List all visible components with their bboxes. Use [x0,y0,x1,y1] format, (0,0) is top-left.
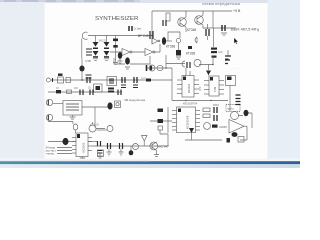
ground [221,33,227,35]
capacitor C15 [118,90,121,96]
wire osc top [88,35,152,37]
IC DD1 [182,76,194,98]
box X4 [238,137,244,143]
svg-text:BC 547: BC 547 [159,145,170,149]
wire row y121 [48,122,73,125]
ground [113,63,118,65]
wire rail drop left [151,11,153,31]
bottom blue bar [0,161,300,164]
capacitor C28 dark [129,150,134,155]
resistor R1 [166,13,170,21]
wire bottom row [92,145,168,147]
capacitor C12 [134,77,137,83]
capacitor C22 [236,95,241,99]
capacitor C10 [87,77,90,83]
ground [118,61,123,63]
svg-text:КФ1015: КФ1015 [187,83,191,93]
diode VD5 [58,77,64,83]
ground [154,155,159,157]
resistor R9 [212,125,218,128]
mouse cursor [234,38,238,44]
transistor VT11 [150,142,158,150]
label BF245 [138,34,149,38]
diode VD7 [189,128,194,133]
capacitor C6 [162,37,166,45]
svg-text:Лм565: Лм565 [219,125,227,129]
svg-text:. . . . . . .: . . . . . . . [229,66,239,70]
buffer U3 [152,38,158,44]
component E1 [158,109,164,113]
varactor VD2 [104,42,110,49]
resistor R3 [86,75,92,78]
wire left of DD3 [167,107,169,133]
wire row y92 [48,91,122,93]
capacitor C13 [80,90,83,96]
capacitor C8 [125,57,130,64]
buffer circle [133,144,139,150]
capacitor C26 [108,143,111,149]
wire drops to ICs [186,68,190,76]
right gray column [268,0,301,160]
resistor cluster [188,46,192,49]
resistor R6 [67,90,72,93]
wire rail drop right [212,11,214,28]
ground [70,115,76,119]
wire under ICs [172,100,228,102]
dashed box K1 [226,105,240,112]
resistor stack R11 [115,36,117,63]
resistor+gnd box [98,150,104,157]
top strip [0,0,300,3]
junction [165,67,166,68]
capacitor C24 [232,132,238,137]
transistor VT8 [231,112,239,120]
below bar strip [0,164,300,168]
connector lug [227,138,231,143]
filter box Z1 [63,101,82,116]
svg-text:100: 100 [218,50,223,54]
resistor R4 [146,79,151,82]
capacitor C29 [98,141,101,147]
varactor VD2b [104,51,110,58]
svg-text:КС1066: КС1066 [82,142,86,152]
crystal ZQ1 [206,29,209,36]
transistor VT5 [107,126,113,132]
transistor VT10 [89,125,96,132]
label +9V [233,9,241,13]
crystal box ZQ2 [94,84,103,92]
svg-text:ЗГ1: ЗГ1 [198,86,202,91]
ground [80,157,85,160]
svg-text:100: 100 [74,87,79,90]
op-amp A2 [229,120,244,134]
svg-text:КТ368: КТ368 [187,28,196,32]
capacitor C9 [79,66,84,72]
svg-text:КВ132: КВ132 [99,40,107,43]
resistor R10 [98,151,103,154]
feedback wire low [130,56,150,64]
junction dots [81,35,214,102]
capacitor C11 [122,77,125,83]
oscillator jack X1 [82,32,87,39]
diode VD6 [206,71,211,76]
jack symbol [182,61,185,67]
wire [155,44,160,52]
page background [0,0,300,168]
wire y68 chain [146,67,172,69]
label VYH 467,5 MHz [231,28,259,32]
svg-text:BF 245: BF 245 [138,34,149,38]
inductor L2 [157,65,163,70]
label above [90,123,99,127]
wire out [82,106,108,108]
wire audio y80 [51,79,172,81]
left gray column [0,2,45,160]
wire [166,40,172,42]
electrolytic C18 [46,114,52,120]
svg-text:4,5В: 4,5В [85,59,91,63]
resistor R8 [203,114,210,118]
varicap VD4 [176,50,181,56]
varactor VD1b [93,51,99,58]
capacitor C21 [214,115,217,121]
svg-text:ТМ2: ТМ2 [213,86,217,92]
connector X2 [47,78,51,82]
capacitor C22b [236,102,241,105]
svg-text:фп1п: фп1п [228,107,235,111]
wire y64.5 [199,56,213,65]
svg-text:КФ1015ПЛ4: КФ1015ПЛ4 [183,102,198,106]
resistor box small [158,126,163,130]
resistor R2 ladder [225,56,231,64]
label KT368 second [186,52,195,56]
connector pin bar [52,78,54,82]
svg-text:К561: К561 [213,103,219,107]
wire loop bottom right [240,126,247,140]
feedback loop wires [168,32,180,41]
resistor R7 [203,108,210,112]
label KT368 [166,45,175,49]
capacitor C14 [90,90,93,96]
ground [125,67,130,69]
input wires [57,148,72,154]
electrolytic C31 [149,65,155,71]
title SYNTHESIZER [95,16,139,22]
wire vertical x95 [94,107,96,128]
junction circle [176,38,180,42]
transistor VT7 [204,123,211,130]
svg-text:КТ368: КТ368 [186,52,195,56]
svg-text:ЧМ модулятора: ЧМ модулятора [124,98,145,102]
transistor VT6 [194,60,201,67]
component E2 [158,119,164,123]
varactor VD1 [93,42,99,49]
capacitor C20 [214,107,217,113]
wire in [53,103,63,105]
svg-text:КТ368: КТ368 [166,45,175,49]
capacitor C32 [108,88,114,93]
bottom white row [0,159,300,162]
electrolytic C25 [63,138,69,145]
IC DA1 [76,133,88,157]
svg-text:схема передатчика: схема передатчика [202,2,240,6]
transistor VT1 [178,18,187,27]
wire jack drop [81,39,83,59]
label between ICs [198,86,202,91]
caps pair small [86,49,92,55]
svg-text:+9 В: +9 В [233,9,241,13]
svg-text:0,1мк: 0,1мк [134,27,142,31]
capacitor C1 [163,20,166,26]
inductor L1 [195,37,197,43]
capacitor C5 [129,26,132,31]
ground [104,59,109,61]
wire y63.5 [165,55,167,68]
wire y121 mid [150,120,172,122]
svg-text:КС1015ХК: КС1015ХК [186,115,190,129]
electrolytic C16 [46,99,52,105]
transistor VT2 [195,16,204,25]
capacitor C27 [120,143,123,149]
JFET VT3 [150,31,153,39]
IC DD2 [209,76,219,96]
box modulator A1 [107,77,117,86]
wire mid vertical [81,58,83,66]
buffer U1 [122,49,130,56]
capacitor oval [73,124,78,130]
svg-text:ВЫХ 467,5 МГц: ВЫХ 467,5 МГц [231,28,259,32]
capacitor C2 [222,25,225,31]
capacitor C17 [107,102,112,109]
ground [213,28,215,47]
capacitor C19 [187,62,190,68]
wire supply rail [152,10,232,12]
svg-text:+питан.: +питан. [46,153,55,156]
capacitor C23 [244,110,249,116]
ground [93,59,98,61]
connector X3 [115,101,121,108]
IC DD3 [177,107,196,133]
label values [99,40,107,43]
diode VD8 [142,136,148,142]
buffer U2 [145,49,153,56]
label KT368 [187,28,196,32]
wire vertical x172 [171,68,173,101]
resistor R5 [56,90,61,93]
box B1 [226,76,236,86]
svg-text:SYNTHESIZER: SYNTHESIZER [95,16,139,22]
capacitor C7 [118,52,122,59]
capacitor C30 [146,65,148,71]
wire output [213,27,236,29]
wire [110,51,145,53]
